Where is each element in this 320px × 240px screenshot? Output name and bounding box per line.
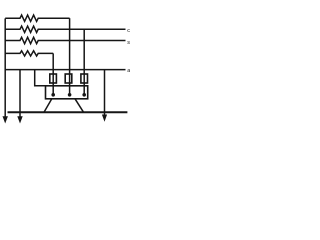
wire: horizontal bus at y=70 — [5, 69, 125, 71]
wire: drop to bottom arrow 3 — [104, 70, 106, 116]
resistor R1 — [5, 15, 69, 21]
terminal dot A — [51, 93, 55, 97]
arrow (second, down) — [17, 116, 22, 123]
wire: L-link from y70 bus to big box top-left — [35, 70, 46, 86]
terminal dot C — [82, 93, 86, 97]
svg-text:a: a — [127, 68, 130, 74]
relay box U1 — [46, 86, 88, 99]
left vertical bus — [4, 18, 6, 117]
resistor R2 — [5, 26, 125, 32]
wire: vertical from R4 to fuse F1 — [52, 53, 54, 94]
fuse F2 — [65, 74, 72, 83]
fuse F1 — [50, 74, 57, 83]
wire: drop to bottom arrow 2 — [19, 70, 21, 117]
svg-text:s: s — [127, 40, 130, 46]
terminal dot B — [68, 93, 72, 97]
arrow (left bus, down) — [3, 116, 8, 123]
ground rail — [8, 111, 128, 113]
wire: right slant to ground rail — [75, 99, 84, 112]
wire: left slant to ground rail — [44, 99, 52, 112]
svg-text:c: c — [127, 28, 130, 34]
resistor R4 — [5, 51, 53, 56]
resistor R3 — [5, 37, 125, 43]
wire: vertical from R2 to fuse F3 — [83, 29, 85, 94]
arrow (right, down) — [102, 115, 107, 122]
fuse F3 — [81, 74, 88, 83]
wire: vertical from R1 to fuse F2 — [69, 18, 71, 94]
